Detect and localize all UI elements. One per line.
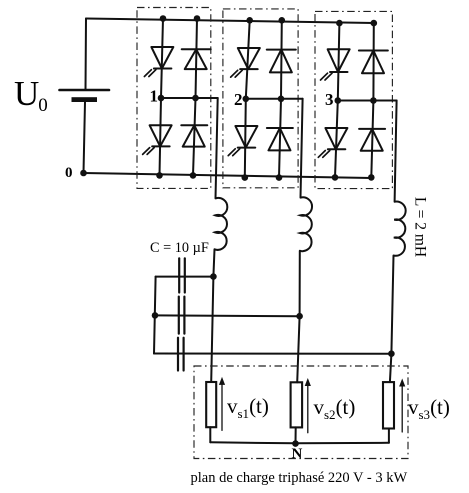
junction dot leg 3 diode midpoint: [370, 97, 377, 104]
junction dot bottom bus leg 3 switch column: [332, 174, 339, 181]
junction dot top bus leg 2 diode column: [279, 17, 286, 24]
wire phase 3 inductor to capacitor tap: [391, 256, 393, 354]
svg-text:1: 1: [150, 87, 159, 106]
wire phase 1 down to load resistor: [211, 277, 213, 382]
diode D3' (bottom, leg 3): [359, 128, 385, 130]
svg-text:vs1(t): vs1(t): [227, 394, 269, 421]
wire phase 2 down from leg 2: [301, 99, 303, 198]
wire leg 1 diode column: [196, 19, 198, 99]
junction dot bottom bus leg 1 switch column: [156, 172, 163, 179]
junction dot top bus leg 3 diode column: [371, 20, 378, 27]
dashed box inverter leg 2: [223, 9, 298, 188]
wire neutral bus of load: [210, 442, 389, 443]
resistor load R2: [291, 382, 303, 427]
svg-text:U0: U0: [14, 74, 48, 116]
wire capacitor C1 branch: [156, 276, 214, 278]
arrow vs2: [307, 384, 309, 433]
node 0 junction dot: [80, 170, 87, 177]
diode D2 (top, leg 2): [267, 49, 296, 51]
junction dot top bus leg 1 diode column: [194, 15, 201, 22]
wire leg 3 diode column: [372, 23, 374, 100]
junction dot capacitor C2 to phase 2: [296, 313, 303, 320]
wire R3 bottom to neutral bus: [388, 429, 390, 443]
svg-text:2: 2: [234, 90, 243, 109]
capacitor C3: [177, 338, 179, 371]
diode D3 (top, leg 3): [359, 50, 388, 52]
resistor load R1: [206, 382, 216, 427]
svg-text:L = 2 mH: L = 2 mH: [412, 197, 429, 257]
svg-text:0: 0: [65, 165, 73, 181]
wire leg 1 switch column: [161, 19, 163, 99]
svg-text:vs2(t): vs2(t): [314, 395, 356, 422]
wire leg 2 diode column: [280, 20, 283, 99]
inductor L3: [393, 202, 405, 256]
switch T1 (top, leg 1): [151, 47, 173, 69]
wire phase 1 inductor to capacitor tap: [213, 249, 214, 276]
svg-text:plan de charge triphasé 220 V: plan de charge triphasé 220 V - 3 kW: [191, 470, 408, 486]
junction dot bottom bus leg 3 diode column: [368, 174, 375, 181]
wire R2 bottom to neutral node N: [295, 427, 297, 443]
wire phase 3 down to load resistor: [390, 354, 392, 382]
wire phase 2 inductor to capacitor tap: [299, 251, 301, 316]
junction dot capacitor bus to C2 branch: [152, 312, 159, 319]
resistor load R3: [383, 382, 394, 428]
junction dot leg 2 diode midpoint: [278, 96, 285, 103]
wire leg 2 switch column: [246, 20, 250, 99]
capacitor C2: [178, 297, 180, 334]
wire bottom DC bus: [84, 173, 372, 178]
dashed box inverter leg 1: [137, 8, 211, 189]
dashed box inverter leg 3: [315, 11, 392, 188]
wire R1 bottom to neutral bus: [209, 427, 211, 442]
wire capacitor C2 branch: [155, 314, 300, 317]
wire leg 3 switch column: [338, 23, 340, 100]
node 2 junction dot: [243, 96, 250, 103]
node 3 junction dot: [335, 97, 342, 104]
junction dot bottom bus leg 2 diode column: [276, 174, 283, 181]
junction dot top bus leg 3 switch column: [336, 20, 343, 27]
inductor L1: [215, 198, 228, 250]
arrow vs1: [221, 382, 223, 430]
svg-text:C = 10 µF: C = 10 µF: [150, 240, 209, 256]
junction dot top bus leg 2 switch column: [246, 17, 253, 24]
wire phase 2 down to load resistor: [297, 316, 299, 382]
diode D2' (bottom, leg 2): [267, 127, 293, 129]
junction dot bottom bus leg 1 diode column: [190, 172, 197, 179]
switch T3 (top, leg 3): [328, 49, 350, 72]
wire phase node 2 to leg exit: [246, 98, 281, 100]
wire phase 1 down from leg 1: [216, 98, 218, 198]
switch T2' (bottom, leg 2): [235, 126, 257, 148]
battery U0 positive plate: [60, 89, 110, 92]
node N junction dot: [292, 440, 299, 447]
wire from top bus down to battery positive: [85, 19, 88, 91]
wire capacitor C3 branch: [154, 353, 391, 355]
switch T2 (top, leg 2): [238, 48, 260, 69]
svg-text:vs3(t): vs3(t): [408, 395, 450, 422]
svg-text:N: N: [292, 446, 303, 462]
switch T1' (bottom, leg 1): [150, 125, 172, 146]
junction dot bottom bus leg 2 switch column: [242, 174, 249, 181]
diode D1' (bottom, leg 1): [181, 124, 207, 126]
wire from battery negative down to node 0: [84, 102, 86, 173]
battery U0 negative plate: [72, 97, 98, 102]
inductor L2: [300, 197, 312, 251]
diode D1 (top, leg 1): [182, 48, 211, 50]
node 1 junction dot: [158, 95, 165, 102]
junction dot capacitor C1 to phase 1: [210, 273, 217, 280]
svg-text:3: 3: [325, 90, 334, 109]
dashed box three-phase load: [194, 366, 408, 459]
wire top DC bus: [86, 19, 374, 24]
wire phase node 1 to leg exit: [161, 97, 196, 99]
wire phase node 3 to leg exit: [338, 100, 374, 102]
junction dot top bus leg 1 switch column: [160, 15, 167, 22]
junction dot leg 1 diode midpoint: [192, 95, 199, 102]
arrow vs3: [401, 384, 403, 432]
switch T3' (bottom, leg 3): [325, 128, 347, 149]
wire capacitor star bus (left vertical): [154, 277, 156, 354]
wire phase 3 down from leg 3: [395, 101, 397, 202]
junction dot capacitor C3 to phase 3: [388, 350, 395, 357]
capacitor C1: [178, 258, 180, 292]
